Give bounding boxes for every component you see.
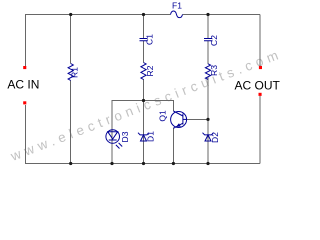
svg-text:F1: F1 — [172, 1, 182, 11]
svg-text:C1: C1 — [145, 34, 155, 45]
svg-text:AC IN: AC IN — [7, 77, 39, 91]
svg-text:C2: C2 — [209, 35, 219, 46]
svg-text:D1: D1 — [146, 131, 156, 142]
svg-text:R1: R1 — [70, 67, 80, 78]
svg-text:AC OUT: AC OUT — [235, 79, 281, 93]
svg-text:D2: D2 — [210, 132, 220, 143]
svg-text:D3: D3 — [120, 131, 130, 142]
svg-text:R3: R3 — [209, 65, 219, 76]
svg-text:Q1: Q1 — [158, 110, 168, 122]
svg-text:R2: R2 — [145, 65, 155, 76]
